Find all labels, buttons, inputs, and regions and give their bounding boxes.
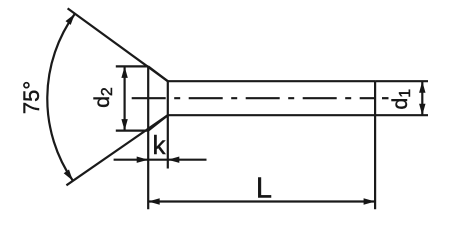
svg-text:75°: 75° (19, 81, 44, 114)
svg-text:L: L (256, 172, 272, 204)
svg-text:k: k (153, 130, 167, 160)
